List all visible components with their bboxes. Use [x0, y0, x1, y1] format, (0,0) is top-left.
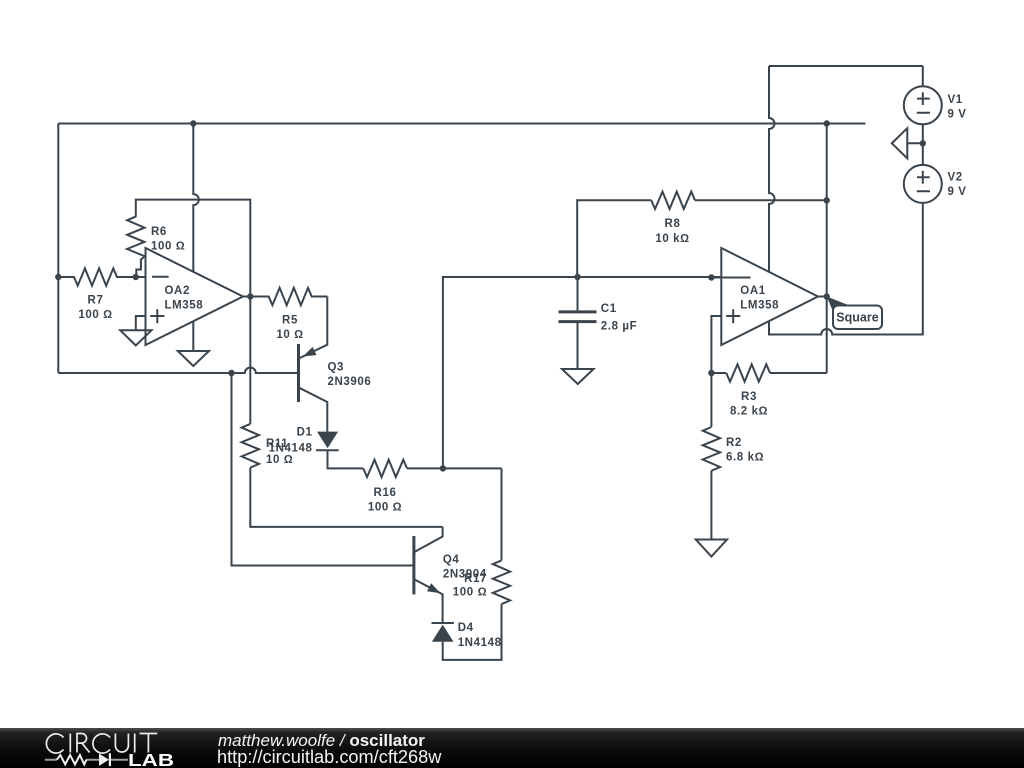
resistor R16 — [363, 460, 407, 477]
wire top right rail — [769, 65, 923, 67]
OA1 plus sign — [726, 309, 740, 323]
wire R6 bottom lead — [136, 259, 141, 277]
Q3 emitter arrow — [303, 347, 317, 357]
op-amp OA2 — [146, 248, 244, 345]
resistor R5 — [250, 288, 327, 305]
svg-text:10 Ω: 10 Ω — [276, 329, 303, 341]
svg-text:10 Ω: 10 Ω — [266, 454, 293, 466]
node R3 left — [708, 370, 714, 376]
transistor Q4 base bar — [412, 536, 415, 594]
svg-text:LAB: LAB — [128, 750, 174, 768]
voltage source V2 — [904, 165, 942, 203]
wire top rail — [58, 123, 865, 125]
svg-text:8.2 kΩ: 8.2 kΩ — [730, 406, 768, 418]
wire R8 left lead — [577, 200, 651, 277]
svg-text:R11: R11 — [266, 438, 288, 450]
voltage source V1 — [904, 86, 942, 124]
resistor R17 — [501, 468, 503, 560]
svg-text:R16: R16 — [374, 487, 397, 499]
Q4 emitter — [414, 579, 443, 623]
node top rail / OA2 supply — [190, 120, 196, 126]
node R8 right — [824, 197, 830, 203]
diode D1 — [317, 432, 338, 449]
wire R16 right — [407, 467, 502, 469]
svg-text:R6: R6 — [151, 226, 167, 238]
wire D4 bottom loop to R17 — [443, 604, 502, 660]
resistor R3 — [711, 372, 726, 374]
ground R2 — [696, 540, 727, 557]
net flag arrow — [892, 128, 923, 158]
svg-text:R8: R8 — [665, 218, 681, 230]
svg-text:R3: R3 — [741, 391, 757, 403]
node V1/V2 — [920, 140, 926, 146]
svg-text:C1: C1 — [601, 303, 617, 315]
ground C1 — [562, 369, 594, 384]
wire V1 to V2 — [922, 124, 924, 165]
svg-text:R17: R17 — [464, 573, 487, 585]
wire base rail with hop over R11 branch — [58, 368, 297, 374]
OA2 output pin — [243, 296, 250, 298]
svg-text:Square: Square — [836, 311, 878, 325]
resistor R7 — [58, 268, 136, 285]
diode D4 — [432, 622, 454, 624]
resistor R11 — [249, 297, 251, 424]
OA2 inverting input stub — [136, 276, 146, 278]
node top rail / output vertical — [824, 120, 830, 126]
OA1 minus sign — [711, 277, 750, 279]
svg-text:OA2: OA2 — [165, 285, 190, 297]
square flag box — [833, 306, 882, 330]
svg-text:OA1: OA1 — [740, 285, 765, 297]
Q4 collector — [414, 527, 443, 552]
wire R8 right lead — [695, 199, 827, 201]
footer logo — [0, 728, 200, 768]
wire integrator node vertical — [443, 277, 578, 468]
footer line 2 — [217, 748, 441, 766]
OA2 V- lead — [192, 322, 194, 352]
svg-text:10 kΩ: 10 kΩ — [655, 233, 689, 245]
square flag pointer — [827, 297, 852, 312]
svg-text:R7: R7 — [88, 295, 104, 307]
wire D1 to R16 — [328, 450, 364, 468]
node base rail to Q4 branch — [228, 370, 234, 376]
svg-text:V2: V2 — [948, 172, 963, 184]
wire OA1 inverting input — [578, 276, 722, 278]
svg-text:V1: V1 — [948, 94, 963, 106]
Q3 collector — [299, 388, 327, 432]
node R7/R6/inverting input — [133, 274, 139, 280]
svg-text:6.8 kΩ: 6.8 kΩ — [726, 452, 764, 464]
svg-text:9 V: 9 V — [948, 109, 967, 121]
svg-text:R5: R5 — [282, 315, 298, 327]
node R16 / OA1 inverting branch — [440, 465, 446, 471]
wire R6 feedback top — [136, 200, 251, 297]
OA1 output pin — [818, 296, 827, 298]
wire OA2 V+ supply with hop — [193, 124, 199, 272]
svg-text:2.8 µF: 2.8 µF — [601, 320, 637, 332]
OA2 plus sign — [150, 309, 164, 323]
svg-text:LM358: LM358 — [165, 299, 204, 311]
resistor R8 — [651, 192, 695, 209]
OA2 minus sign — [152, 276, 169, 278]
svg-text:Q3: Q3 — [328, 362, 345, 374]
resistor R6 — [127, 216, 144, 259]
wire V2 bottom to OA1 V- with hop — [769, 203, 923, 335]
svg-text:LM358: LM358 — [740, 299, 779, 311]
node OA1 inverting pin — [708, 274, 714, 280]
wire output vertical (rail to R3) — [826, 124, 828, 374]
svg-text:1N4148: 1N4148 — [458, 637, 502, 649]
ground OA2 V- — [178, 351, 209, 366]
OA2 non-inverting input stub — [136, 316, 146, 330]
wire left vertical — [57, 124, 59, 374]
capacitor C1 — [577, 277, 579, 310]
logo resistor-diode glyph — [45, 759, 128, 761]
footer line 1 — [218, 732, 425, 749]
footer bar — [0, 728, 1024, 768]
svg-text:9 V: 9 V — [948, 186, 967, 198]
wire Q4 base branch — [232, 373, 414, 566]
resistor R2 — [710, 373, 712, 427]
svg-text:Q4: Q4 — [443, 554, 460, 566]
node C1 top — [574, 274, 580, 280]
wire OA1 V+ supply with hops — [769, 66, 775, 272]
svg-text:100 Ω: 100 Ω — [368, 501, 402, 513]
svg-text:D4: D4 — [458, 622, 474, 634]
wire R5 to Q3 emitter — [299, 297, 327, 359]
node R7 left — [55, 274, 61, 280]
ground OA2 plus input — [120, 330, 151, 345]
svg-text:D1: D1 — [297, 427, 313, 439]
svg-text:100 Ω: 100 Ω — [453, 587, 487, 599]
svg-text:100 Ω: 100 Ω — [78, 309, 112, 321]
wire V1 top lead — [922, 66, 924, 86]
svg-text:2N3906: 2N3906 — [328, 376, 372, 388]
node OA1 output — [824, 293, 830, 299]
svg-text:R2: R2 — [726, 437, 742, 449]
node OA2 output — [247, 293, 253, 299]
OA1 non-inverting stub — [711, 316, 721, 373]
Q4 emitter arrow — [427, 583, 441, 593]
op-amp OA1 — [721, 248, 818, 345]
svg-text:100 Ω: 100 Ω — [151, 241, 185, 253]
transistor Q3 base bar — [297, 344, 300, 402]
